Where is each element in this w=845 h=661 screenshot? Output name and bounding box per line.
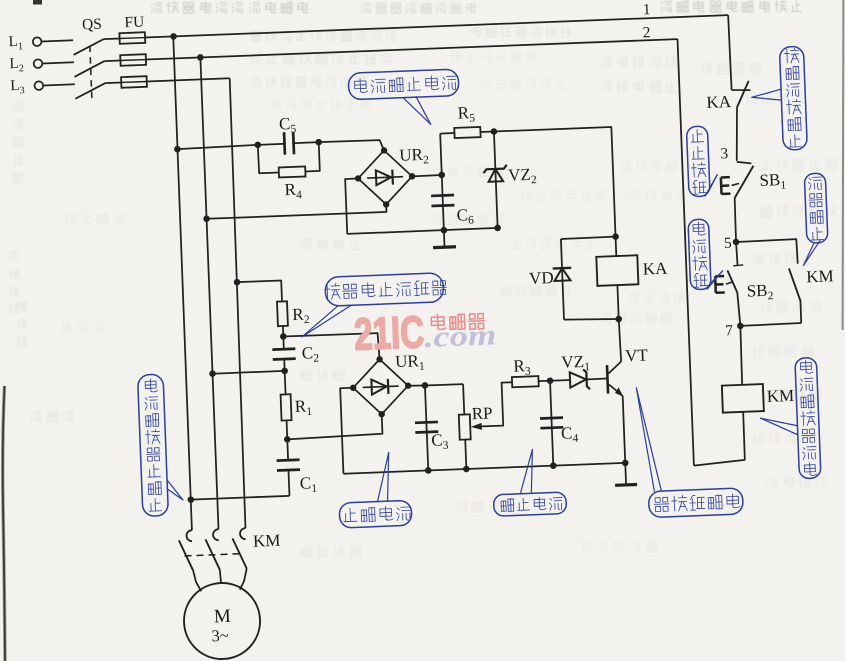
wire KM coil bottom xyxy=(692,412,745,466)
junction C-R2 xyxy=(234,279,241,286)
wire KM aux to node7 xyxy=(740,323,801,326)
wire to R3 xyxy=(539,380,550,382)
switch QS blade 1 xyxy=(73,39,104,55)
contact KA (NC, phase-failure) xyxy=(732,89,751,91)
wire UR1 bottom lead xyxy=(286,414,382,439)
wire line1 down xyxy=(728,15,731,90)
contact KM (self-lock, NO) xyxy=(789,268,801,302)
wire UR1 top lead xyxy=(283,333,379,363)
wire row2 (net 2) xyxy=(146,39,678,59)
junction C6 bottom xyxy=(440,227,447,234)
junction C5 right xyxy=(315,139,322,146)
wire node7 to KM coil xyxy=(740,326,743,385)
contact KM main 2 xyxy=(213,529,219,540)
zener VZ1 xyxy=(583,369,590,389)
wire N2 to phase B xyxy=(213,371,285,374)
junction N1 xyxy=(280,333,287,340)
QS linkage dashed xyxy=(90,46,92,99)
corner mark xyxy=(33,0,42,5)
svg-text:VT: VT xyxy=(625,345,649,365)
svg-text:KM: KM xyxy=(806,266,834,286)
wire row3 xyxy=(147,78,230,81)
bridge rectifier UR1 xyxy=(352,358,409,415)
wire UR2 left to ground bus xyxy=(345,178,360,233)
resistor R2 xyxy=(277,301,288,326)
callout delay circuit xyxy=(493,492,566,516)
wire blade to fuse xyxy=(105,81,121,84)
svg-text:5: 5 xyxy=(724,235,733,252)
svg-text:KA: KA xyxy=(706,92,732,112)
KM linkage dashed xyxy=(184,554,241,556)
wire UR1 left to bus xyxy=(340,388,356,474)
terminal L2 xyxy=(34,59,43,68)
junction A-C1 xyxy=(187,496,194,503)
wire KA to SB1 xyxy=(735,107,739,161)
wire row1 (net 1) xyxy=(145,15,728,37)
svg-text:KA: KA xyxy=(642,259,668,279)
svg-text:.com: .com xyxy=(424,319,497,354)
capacitor C6 xyxy=(431,194,454,198)
wire C to R2 xyxy=(237,280,282,303)
svg-text:VD: VD xyxy=(529,268,554,288)
junction KA bottom xyxy=(615,316,622,323)
wire phase A vertical xyxy=(173,36,192,530)
pushbutton SB2 (start, NO) xyxy=(736,242,738,266)
pushbutton SB1 (stop, NC) xyxy=(737,161,752,164)
junction KA top xyxy=(612,233,619,240)
transistor VT xyxy=(608,361,622,373)
callout measuring circuit xyxy=(339,500,412,528)
callout DC regulated supply xyxy=(348,69,459,100)
wire phase B vertical xyxy=(200,57,218,529)
bottom bus wire xyxy=(343,463,625,474)
switch QS blade 3 xyxy=(75,83,106,99)
bridge rectifier UR2 xyxy=(357,149,413,205)
wire R4 right leg xyxy=(304,142,320,171)
junction N2 xyxy=(281,367,288,374)
svg-text:FU: FU xyxy=(124,14,144,32)
watermark dianziwang xyxy=(431,314,446,330)
wire VT base xyxy=(587,378,607,381)
terminal L1 xyxy=(33,37,42,46)
potentiometer RP xyxy=(463,384,464,414)
svg-text:3~: 3~ xyxy=(211,626,229,646)
wire R4 left leg xyxy=(258,144,279,173)
wire A to C5 node xyxy=(177,145,257,149)
contact KM main 3 xyxy=(240,528,246,539)
motor M xyxy=(183,582,262,661)
callout contactor coil xyxy=(795,357,821,478)
junction emitter xyxy=(622,459,629,466)
wire to UR2 top xyxy=(319,140,384,153)
wire to motor 1 xyxy=(193,570,201,591)
capacitor C3 xyxy=(425,385,428,470)
switch QS blade 2 xyxy=(74,61,105,77)
svg-text:RP: RP xyxy=(471,403,493,423)
junction N3 xyxy=(284,436,291,443)
resistor R3 xyxy=(512,376,539,387)
resistor R1 xyxy=(284,371,287,394)
relay coil KA xyxy=(615,237,618,256)
ground bus xyxy=(347,228,498,234)
svg-text:M: M xyxy=(213,606,231,628)
capacitor C2 xyxy=(282,336,284,349)
fuse FU3 xyxy=(121,76,147,88)
wire to RP top xyxy=(425,384,463,386)
fuse FU1 xyxy=(119,32,145,44)
junction R5 out xyxy=(491,128,498,135)
wire R3 to RP wiper xyxy=(473,382,514,426)
wire L1 to switch xyxy=(42,40,73,41)
junction C3 bottom xyxy=(425,467,432,474)
svg-text:KM: KM xyxy=(766,386,794,406)
wire phase C vertical xyxy=(228,78,247,528)
node 5 xyxy=(733,239,740,246)
junction phase A xyxy=(170,33,177,40)
contact KM main 1 xyxy=(186,530,192,541)
wire C1 to phase A xyxy=(191,496,290,500)
junction A-C5 xyxy=(174,146,181,153)
ground symbol 2 xyxy=(624,463,627,485)
junction C4 bottom xyxy=(550,462,557,469)
wire VD bottom xyxy=(564,318,619,322)
junction B-C2 xyxy=(209,370,216,377)
ground symbol 1 xyxy=(443,230,446,247)
terminal L3 xyxy=(34,81,43,90)
wire UR2 right xyxy=(412,175,442,176)
junction UR1 out xyxy=(422,382,429,389)
wire R5 left xyxy=(440,132,454,135)
capacitor C1 xyxy=(286,439,289,460)
wire KA to VT collector xyxy=(619,319,621,361)
page edge left xyxy=(3,386,5,661)
svg-text:2: 2 xyxy=(642,24,650,41)
wire SB1 to node5 xyxy=(734,198,736,242)
callout phase-failure contact xyxy=(779,46,807,150)
contactor coil KM xyxy=(722,384,764,413)
wire blade to fuse xyxy=(104,38,120,41)
resistor R4 xyxy=(279,166,306,177)
svg-text:QS: QS xyxy=(82,16,102,34)
wire to motor 2 xyxy=(220,570,221,584)
fuse FU2 xyxy=(120,54,146,66)
callout contactor main contacts xyxy=(138,374,169,516)
resistor R5 xyxy=(454,127,480,138)
wire L2 to switch xyxy=(42,62,73,63)
svg-text:1: 1 xyxy=(643,1,651,18)
callout stop button xyxy=(686,126,710,197)
callout amplitude discriminator output xyxy=(648,488,743,518)
page edge right xyxy=(842,0,845,330)
wire L3 to switch xyxy=(43,84,74,85)
wire VD branch top xyxy=(561,237,616,239)
junction UR2 out xyxy=(438,172,445,179)
svg-text:21IC: 21IC xyxy=(353,306,425,360)
callout negative-sequence filter xyxy=(325,273,444,307)
junction B-UR2 xyxy=(203,215,210,222)
capacitor C4 xyxy=(550,381,553,466)
wire to C5 xyxy=(258,144,286,145)
wire node5 to KM aux xyxy=(736,239,798,266)
wire UR1 right xyxy=(408,385,425,386)
wire DC+ vertical xyxy=(440,134,444,231)
wire C5 right xyxy=(292,142,318,143)
wire UR2 bottom to phase B xyxy=(206,204,386,218)
svg-text:KM: KM xyxy=(253,531,281,551)
junction C5 left xyxy=(254,141,261,148)
capacitor C5 xyxy=(283,132,287,155)
callout self-lock contact xyxy=(804,173,828,243)
junction VZ2 bottom xyxy=(494,225,501,232)
diode VD xyxy=(561,239,564,320)
wire to motor 3 xyxy=(239,569,248,590)
svg-text:7: 7 xyxy=(725,322,734,339)
wire R2 to N1 xyxy=(282,326,284,336)
wire line2 down xyxy=(678,39,694,465)
node 7 xyxy=(737,322,744,329)
wire R5 right xyxy=(480,131,493,134)
zener VZ2 xyxy=(494,132,498,229)
svg-text:3: 3 xyxy=(720,145,729,162)
junction phase B xyxy=(197,54,204,61)
wire R5 to KA coil xyxy=(494,127,616,241)
callout start button xyxy=(688,219,711,290)
wire blade to fuse xyxy=(104,59,120,62)
junction R3/C4 xyxy=(547,377,554,384)
junction RP bottom xyxy=(463,466,470,473)
